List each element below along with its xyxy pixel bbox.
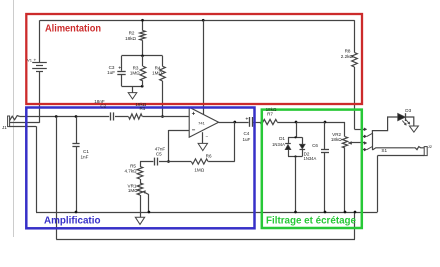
svg-text:Filtrage et écrétage: Filtrage et écrétage [266,214,356,226]
svg-text:R8: R8 [345,48,351,53]
svg-text:+: + [118,65,121,71]
svg-text:Amplificatio: Amplificatio [44,215,101,227]
svg-text:18kΩ: 18kΩ [125,36,136,41]
svg-text:C5: C5 [156,152,162,157]
svg-text:R7: R7 [267,111,273,116]
svg-text:1nF: 1nF [81,155,89,160]
svg-text:R1: R1 [139,106,145,111]
svg-text:C6: C6 [312,143,318,148]
svg-text:18kΩ: 18kΩ [331,137,342,142]
svg-text:1MΩ: 1MΩ [194,168,204,173]
svg-text:1MΩ: 1MΩ [130,70,140,75]
svg-text:4.7kΩ: 4.7kΩ [124,169,137,174]
svg-text:C4: C4 [243,131,249,136]
svg-text:1uF: 1uF [107,70,115,75]
svg-text:V1: V1 [27,57,33,62]
svg-text:R6: R6 [206,154,212,159]
svg-text:D1: D1 [279,136,285,141]
svg-text:C1: C1 [83,149,89,154]
svg-text:Alimentation: Alimentation [45,22,101,34]
svg-text:1N34A: 1N34A [303,156,316,161]
svg-text:1N34A: 1N34A [272,142,285,147]
svg-text:+: + [245,116,248,122]
svg-text:J1: J1 [2,125,7,130]
svg-text:C2: C2 [100,104,106,109]
svg-text:1MΩ: 1MΩ [128,188,138,193]
svg-text:+: + [33,59,36,64]
svg-text:2.2kΩ: 2.2kΩ [341,54,354,59]
svg-text:741: 741 [198,121,205,126]
svg-text:−: − [192,127,196,134]
svg-text:1MΩ: 1MΩ [152,70,162,75]
svg-text:1uF: 1uF [242,137,250,142]
svg-text:−: − [206,134,209,139]
svg-text:R2: R2 [129,30,135,35]
svg-text:D3: D3 [405,108,411,113]
svg-text:+: + [192,111,196,118]
svg-text:S1: S1 [381,148,387,153]
